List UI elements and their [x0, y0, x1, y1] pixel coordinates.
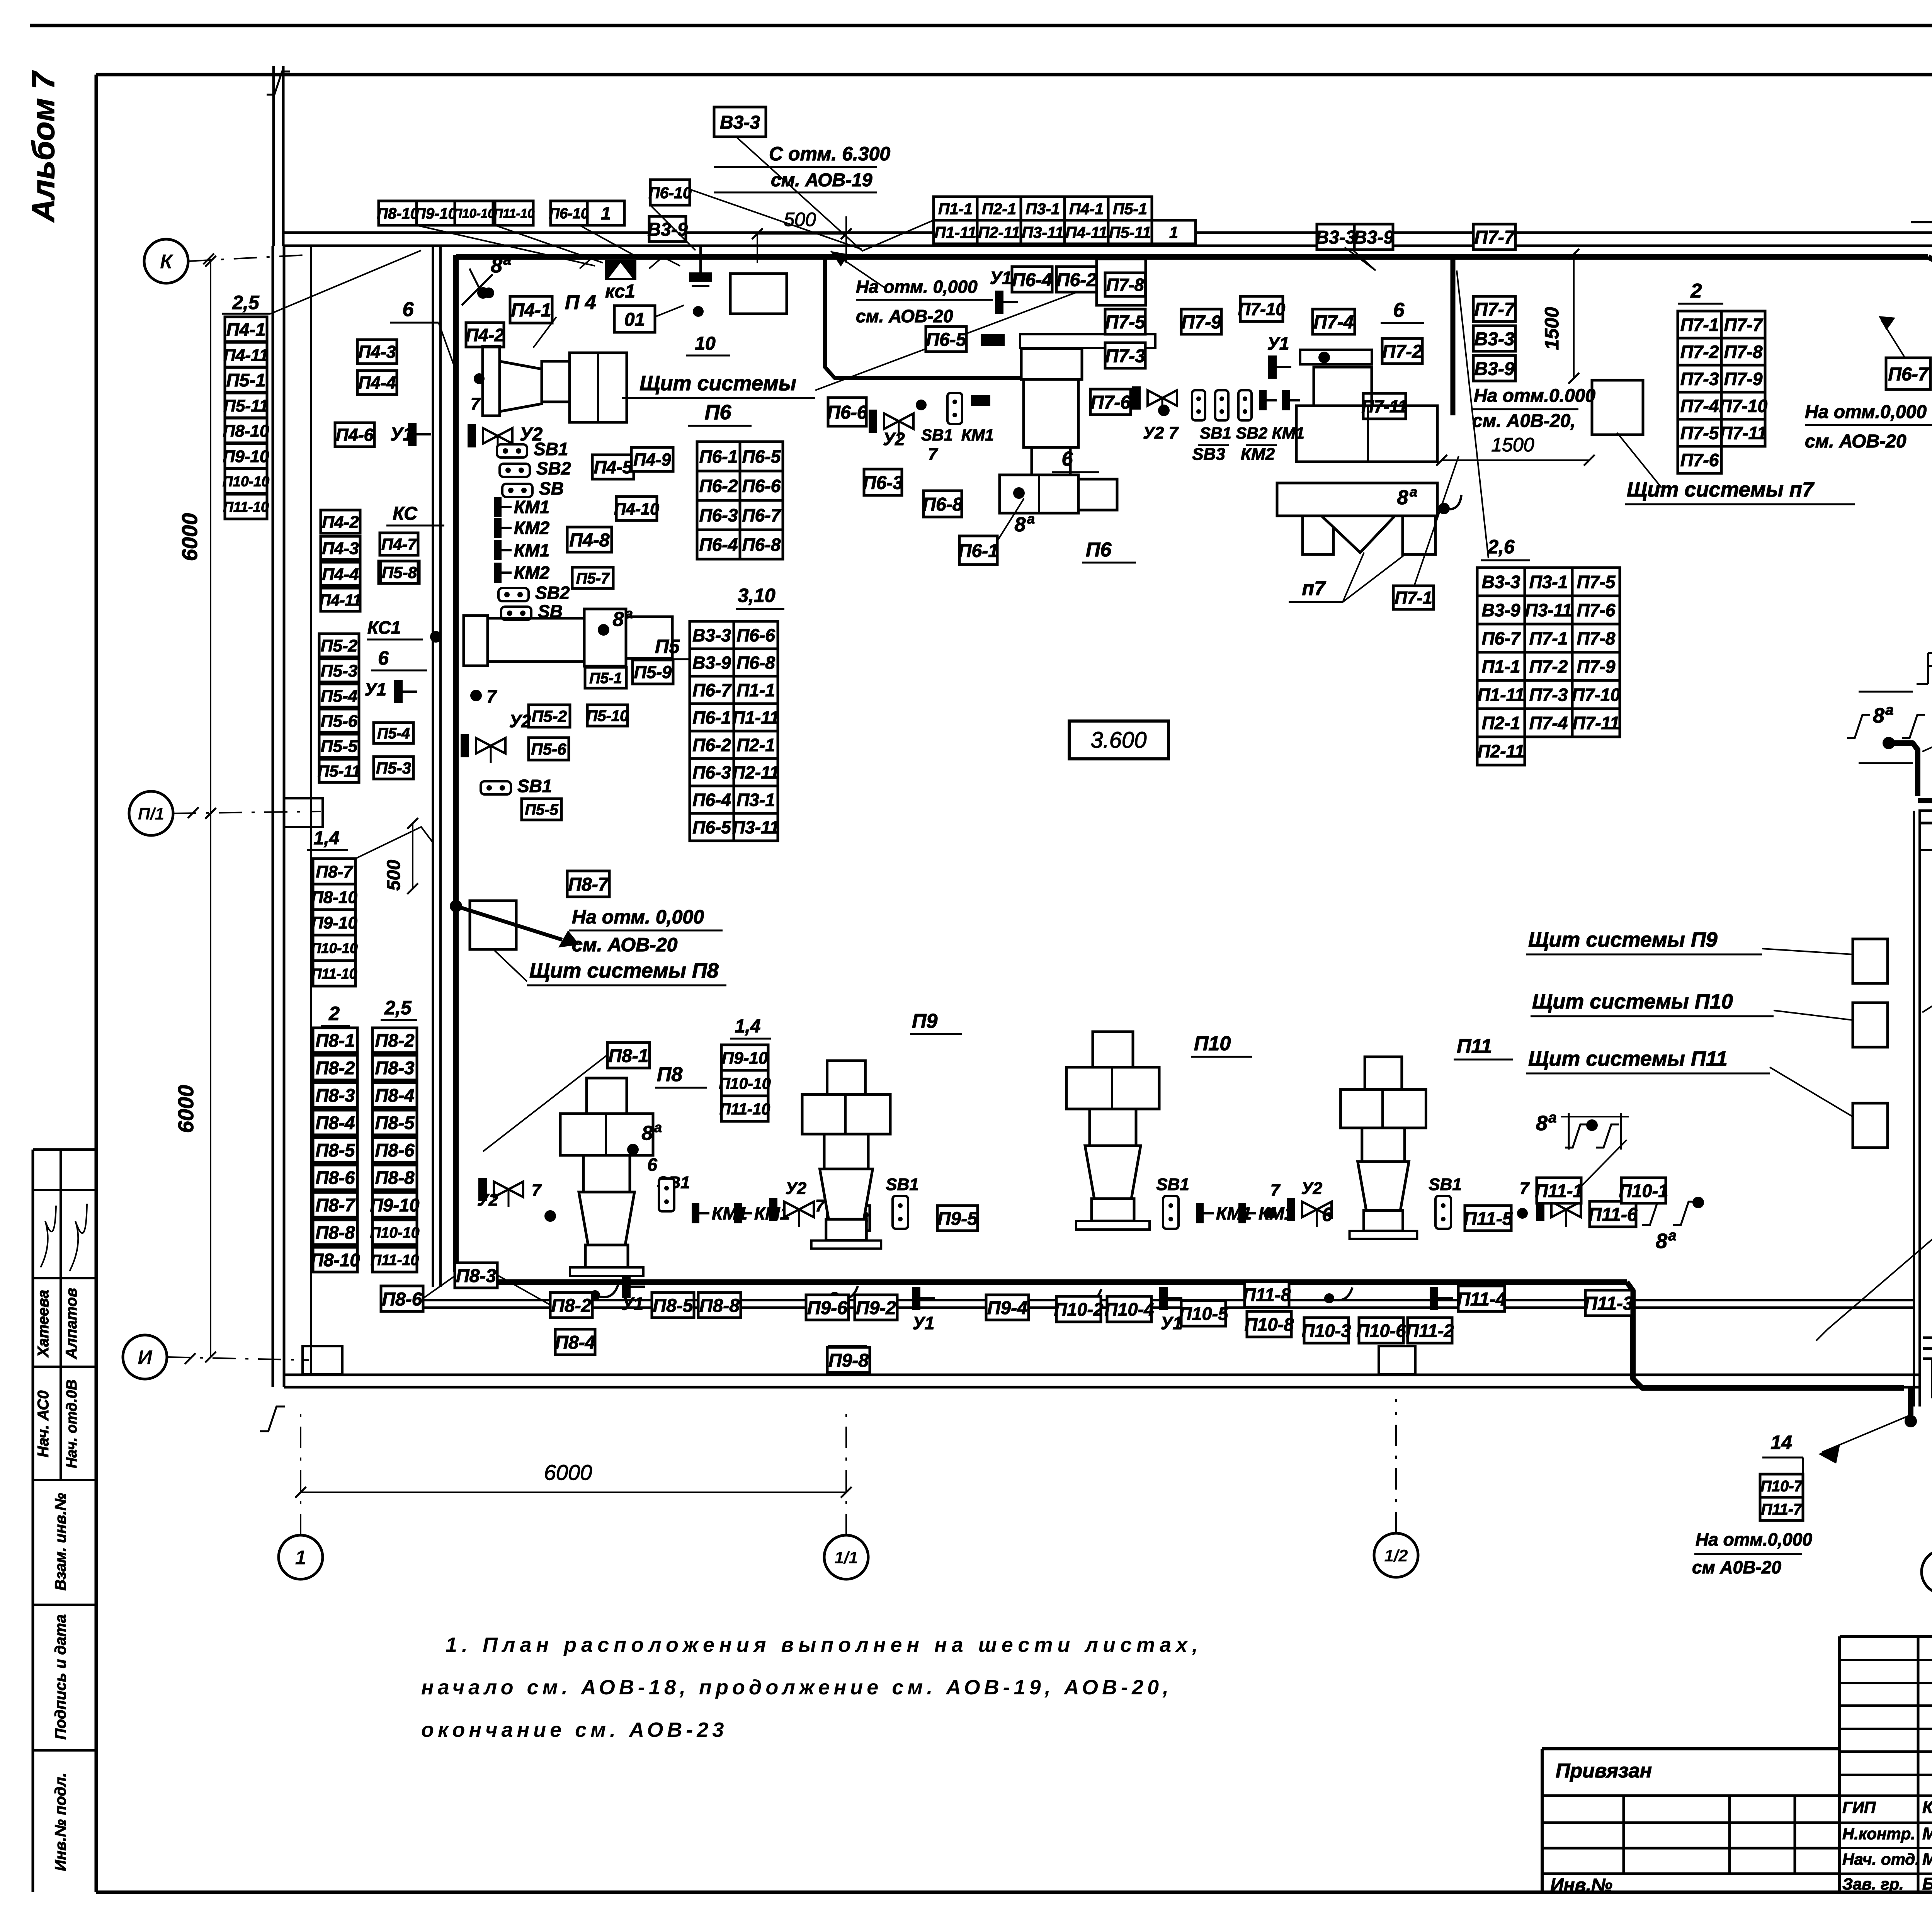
svg-text:П10-10: П10-10	[370, 1225, 420, 1241]
label box П10-10	[223, 469, 270, 493]
dim 500 line	[757, 233, 846, 235]
svg-text:П5-5: П5-5	[525, 801, 558, 818]
label box П8-10	[377, 201, 419, 225]
unit П11 assembly	[1341, 1057, 1426, 1239]
unit П4 horizontal assembly	[483, 346, 500, 416]
label box П10-6	[1357, 1318, 1406, 1343]
svg-text:П4-4: П4-4	[322, 565, 359, 584]
svg-text:И: И	[138, 1347, 153, 1369]
label box П7-6	[1090, 389, 1131, 415]
svg-text:П10-5: П10-5	[1179, 1303, 1229, 1324]
contactor КМ2	[494, 518, 550, 538]
column stub on И wall axis 1	[303, 1346, 342, 1374]
svg-text:П4-5: П4-5	[594, 457, 633, 477]
leader duct to 2,6 table	[1457, 270, 1488, 558]
svg-text:SВ3: SВ3	[1192, 445, 1225, 464]
unit П7 plinth	[1277, 483, 1437, 516]
sheet outer top edge	[30, 24, 1932, 27]
valve У2	[478, 1178, 523, 1207]
svg-text:П10-8: П10-8	[1245, 1314, 1294, 1335]
svg-text:П5-6: П5-6	[531, 740, 567, 758]
svg-text:П10-10: П10-10	[311, 940, 358, 956]
label box П6-10	[648, 180, 692, 205]
svg-text:П1-11: П1-11	[934, 223, 976, 241]
building left wall	[272, 246, 274, 1387]
drawing frame top	[96, 73, 1932, 77]
label box П7-1	[1393, 586, 1434, 609]
svg-text:Щит системы П11: Щит системы П11	[1528, 1047, 1728, 1070]
svg-text:П8-3: П8-3	[456, 1266, 496, 1286]
svg-text:Привязан: Привязан	[1556, 1760, 1652, 1782]
label box П8-2	[550, 1293, 592, 1318]
П9 duct tap	[830, 1292, 840, 1302]
svg-text:КС1: КС1	[367, 617, 401, 638]
svg-text:П8-10: П8-10	[311, 888, 357, 907]
svg-text:2: 2	[1690, 280, 1702, 302]
svg-text:SВ1: SВ1	[534, 439, 568, 459]
contactor КМ1	[1238, 1203, 1294, 1223]
actuator У1	[1268, 355, 1291, 379]
leader П1 row to duct	[862, 220, 934, 251]
svg-text:П8-8: П8-8	[699, 1296, 740, 1316]
axis И dash line	[167, 1357, 309, 1360]
svg-text:П4-3: П4-3	[322, 539, 359, 558]
svg-text:п7: п7	[1302, 577, 1326, 600]
table 3,10 group	[690, 621, 779, 841]
svg-text:П7-10: П7-10	[1719, 396, 1768, 416]
label box П5-7	[572, 567, 613, 588]
switch SВ1	[481, 776, 552, 796]
svg-text:В3-3: В3-3	[1474, 329, 1514, 349]
column stub on П/1 wall	[284, 798, 323, 827]
svg-text:В3-3: В3-3	[720, 112, 760, 133]
label box П8-3	[313, 1083, 357, 1107]
label box П6-6	[827, 398, 867, 426]
svg-text:П6-5: П6-5	[926, 330, 967, 350]
label box П8-10	[311, 1247, 360, 1272]
svg-text:П4-6: П4-6	[336, 425, 374, 445]
leader to П6 panel	[815, 286, 1094, 390]
svg-text:см. АОВ-19: см. АОВ-19	[771, 170, 872, 190]
svg-text:П5-2: П5-2	[532, 707, 567, 725]
label box П10-8	[1245, 1311, 1294, 1337]
svg-text:см. А0В-20,: см. А0В-20,	[1472, 411, 1576, 431]
panel Щит П6	[1097, 259, 1146, 305]
contactor КМ1	[494, 497, 549, 517]
panel Щит П8	[470, 901, 516, 949]
svg-text:см. АОВ-20: см. АОВ-20	[1805, 431, 1906, 452]
svg-text:П10-10: П10-10	[719, 1075, 771, 1092]
П8 branch duct	[456, 906, 562, 940]
svg-text:Малахов: Малахов	[1922, 1850, 1932, 1869]
stamp signatures	[41, 1206, 56, 1267]
svg-text:У1: У1	[364, 679, 386, 699]
svg-text:П1-11: П1-11	[1478, 685, 1525, 705]
svg-text:П7-2: П7-2	[1382, 342, 1422, 362]
svg-text:начало см. АОВ-18, продолже: начало см. АОВ-18, продолжение см. АОВ-1…	[421, 1676, 1172, 1699]
svg-text:П3-11: П3-11	[732, 817, 779, 837]
label box П4-1	[225, 317, 267, 342]
svg-text:см А0В-20: см А0В-20	[1692, 1557, 1781, 1577]
svg-text:1500: 1500	[1491, 434, 1534, 456]
svg-text:П7-6: П7-6	[1680, 450, 1719, 470]
svg-text:см. АОВ-20: см. АОВ-20	[572, 934, 678, 956]
break on left wall	[260, 1406, 285, 1431]
svg-text:П7-6: П7-6	[1577, 600, 1616, 620]
svg-text:П8-3: П8-3	[375, 1058, 415, 1078]
label box П5-8	[379, 561, 419, 583]
svg-text:П7-1: П7-1	[1680, 315, 1719, 335]
svg-text:П3-1: П3-1	[736, 790, 775, 810]
lower-right section top wall	[1918, 810, 1932, 812]
svg-text:П7-4: П7-4	[1529, 713, 1568, 733]
svg-text:П3-11: П3-11	[1022, 223, 1064, 241]
label box П8-6	[372, 1138, 417, 1162]
svg-text:П5-2: П5-2	[321, 636, 358, 655]
svg-text:П6-2: П6-2	[699, 476, 738, 496]
svg-text:У2 7: У2 7	[1143, 423, 1179, 442]
label box П10-10	[453, 201, 495, 225]
svg-text:П6-7: П6-7	[692, 680, 732, 700]
svg-text:У2: У2	[883, 429, 905, 449]
contactor КМ1	[494, 540, 549, 560]
label box П4-3	[357, 340, 397, 364]
П8 duct tap	[590, 1290, 600, 1300]
svg-text:П10-1: П10-1	[1619, 1180, 1668, 1201]
switch SВ	[501, 601, 563, 621]
svg-text:П7-4: П7-4	[1680, 396, 1719, 416]
svg-text:SВ2: SВ2	[535, 583, 570, 603]
label box П8-8	[698, 1293, 741, 1318]
column stub on И wall axis 1/2	[1379, 1346, 1415, 1374]
interior wall above И	[417, 1299, 1915, 1301]
wall break symbol	[267, 71, 290, 95]
svg-text:В3-9: В3-9	[1354, 227, 1394, 248]
svg-text:КС: КС	[393, 503, 418, 524]
valve У2	[461, 734, 505, 763]
actuator У1	[995, 291, 1018, 314]
label box П9-4	[986, 1295, 1029, 1320]
svg-text:П8-10: П8-10	[311, 1250, 360, 1270]
svg-text:В3-9: В3-9	[1474, 359, 1514, 379]
main supply duct along top wall	[456, 254, 1928, 260]
svg-text:У2: У2	[509, 711, 531, 731]
drawing frame bottom	[96, 1891, 1932, 1894]
svg-text:П6-7: П6-7	[742, 505, 782, 526]
table П8-7 list	[311, 859, 358, 986]
svg-text:П1-11: П1-11	[732, 707, 779, 728]
switch SВ2	[498, 583, 570, 603]
svg-text:П5: П5	[655, 636, 680, 657]
svg-text:Альбом 7: Альбом 7	[26, 70, 61, 223]
vertical corridor duct and bottom duct	[456, 255, 1627, 1282]
axis 1 circle	[279, 1535, 323, 1579]
label box П8-7	[313, 1192, 357, 1217]
leader П8-10 row	[417, 225, 595, 266]
label box П5-3	[319, 659, 359, 682]
svg-text:П8-5: П8-5	[653, 1296, 694, 1316]
label box П5-6	[319, 709, 359, 732]
svg-text:а: а	[503, 252, 511, 268]
svg-text:а: а	[1668, 1228, 1676, 1244]
duct along right section top wall	[1918, 801, 1932, 844]
svg-text:SВ1: SВ1	[1429, 1175, 1462, 1194]
svg-text:П8-2: П8-2	[551, 1296, 592, 1316]
left stamp table	[32, 1150, 34, 1892]
svg-text:П9-5: П9-5	[937, 1209, 978, 1229]
label box П11-10	[371, 1247, 419, 1272]
label box П4-9	[631, 447, 673, 471]
svg-text:Щит системы п7: Щит системы п7	[1627, 478, 1815, 501]
heater КС1 symbol	[605, 260, 636, 280]
svg-text:П6: П6	[705, 401, 732, 424]
label box П4-8	[567, 527, 612, 552]
axis К dash line	[188, 255, 305, 261]
switch SВ1	[497, 439, 568, 459]
svg-text:П3-11: П3-11	[1525, 600, 1572, 620]
svg-text:П6-8: П6-8	[923, 494, 963, 515]
КС1 panel square	[730, 274, 787, 314]
leader П6-10 b	[690, 189, 862, 249]
label box П10-3	[1302, 1318, 1351, 1343]
svg-text:Алпатов: Алпатов	[63, 1288, 80, 1359]
svg-text:Щит системы П10: Щит системы П10	[1532, 990, 1733, 1013]
axis 1 dash line	[300, 1406, 301, 1535]
svg-text:На отм.0,000: На отм.0,000	[1805, 402, 1927, 422]
svg-text:П10-3: П10-3	[1302, 1320, 1351, 1341]
axis П/1 circle	[129, 791, 173, 835]
svg-text:П11-10: П11-10	[311, 966, 357, 981]
label box П5-4	[319, 684, 359, 707]
svg-text:6: 6	[647, 1155, 657, 1175]
label box П5-9	[633, 660, 673, 684]
label box П8-10	[223, 418, 269, 443]
switch post	[1215, 390, 1228, 420]
svg-text:Блудова: Блудова	[1922, 1874, 1932, 1893]
svg-text:1. План расположения выполнен: 1. План расположения выполнен на шести л…	[446, 1633, 1202, 1656]
label box П11-5	[1463, 1206, 1513, 1231]
svg-text:П6-10: П6-10	[648, 184, 692, 202]
label box П5-11	[318, 759, 361, 782]
svg-text:П8-5: П8-5	[375, 1112, 415, 1133]
slot diffuser П6	[1020, 334, 1155, 348]
svg-text:На отм.0,000: На отм.0,000	[1696, 1529, 1812, 1549]
label box П7-9	[1181, 309, 1221, 334]
svg-text:П8-4: П8-4	[375, 1085, 415, 1105]
svg-text:КМ2: КМ2	[514, 563, 550, 583]
svg-text:П8-4: П8-4	[316, 1112, 355, 1133]
svg-text:П4-3: П4-3	[358, 342, 396, 362]
label box П6-2	[1056, 267, 1097, 292]
leader from 2,5 list to wall	[270, 250, 421, 314]
svg-text:У1: У1	[622, 1294, 644, 1314]
svg-text:П6-5: П6-5	[742, 447, 781, 467]
contactor	[1282, 390, 1300, 410]
unit П10 assembly	[1066, 1032, 1159, 1230]
svg-text:В3-9: В3-9	[692, 653, 731, 673]
svg-text:П5-7: П5-7	[576, 570, 610, 587]
svg-text:П8-10: П8-10	[377, 205, 419, 222]
svg-text:П3-1: П3-1	[1026, 200, 1060, 218]
label box П6-4	[1012, 267, 1052, 292]
svg-text:Нач. отд.0В: Нач. отд.0В	[64, 1379, 80, 1468]
svg-text:1500: 1500	[1541, 307, 1563, 350]
svg-text:8: 8	[1015, 514, 1026, 536]
svg-text:П4-1: П4-1	[511, 300, 551, 321]
label box П6-1	[958, 536, 998, 565]
svg-text:П6-3: П6-3	[699, 505, 738, 526]
svg-text:7: 7	[471, 395, 481, 413]
svg-text:П6-4: П6-4	[1012, 270, 1052, 290]
svg-text:П6-4: П6-4	[692, 790, 731, 810]
label box П6-3	[863, 469, 903, 495]
leader 1 box	[580, 225, 634, 255]
actuator У1	[912, 1287, 935, 1310]
svg-text:У1: У1	[1267, 333, 1289, 354]
svg-text:6000: 6000	[544, 1460, 592, 1485]
switch post	[1192, 390, 1205, 420]
svg-text:У1: У1	[913, 1313, 935, 1333]
svg-text:П7-5: П7-5	[1577, 572, 1616, 592]
axis 1/2 dash line	[1395, 1399, 1397, 1533]
label box П4-2	[466, 323, 504, 347]
label box П5-11	[223, 393, 268, 418]
svg-text:П6-6: П6-6	[736, 625, 775, 645]
switch SВ	[502, 478, 564, 498]
svg-text:П7-9: П7-9	[1724, 369, 1763, 389]
svg-text:П1-1: П1-1	[938, 200, 973, 218]
unit П5 assembly	[464, 616, 488, 666]
label box П5-5	[319, 734, 359, 757]
svg-text:П4-11: П4-11	[223, 346, 268, 365]
svg-text:П11-4: П11-4	[1457, 1289, 1506, 1310]
svg-text:П5-1: П5-1	[226, 370, 266, 390]
svg-text:П6-2: П6-2	[692, 735, 731, 755]
roof truss line По ферме	[1911, 221, 1932, 223]
П10 duct tap	[1073, 1295, 1083, 1305]
svg-text:П8-4: П8-4	[555, 1332, 595, 1353]
label box П8-6	[313, 1165, 357, 1190]
label box П9-8	[827, 1347, 870, 1372]
svg-text:1/1: 1/1	[834, 1548, 858, 1567]
svg-text:П5-3: П5-3	[376, 759, 411, 777]
svg-text:П11-3: П11-3	[1584, 1293, 1633, 1314]
svg-text:Хатеева: Хатеева	[35, 1290, 52, 1358]
unit П7 funnel	[1321, 516, 1395, 553]
label box П4-4	[357, 371, 397, 395]
svg-text:1: 1	[1169, 223, 1178, 241]
switch post	[1238, 390, 1252, 420]
left vertical dimension line 6000+6000	[210, 261, 211, 1357]
panel Щит П7	[1592, 380, 1643, 435]
svg-text:ГИП: ГИП	[1842, 1798, 1876, 1816]
svg-text:В3-9: В3-9	[1482, 600, 1520, 620]
svg-text:П7-8: П7-8	[1724, 342, 1763, 362]
svg-text:П8-6: П8-6	[375, 1140, 415, 1160]
svg-text:П2-1: П2-1	[1482, 713, 1520, 733]
label box П5-6	[529, 738, 569, 760]
svg-text:П8-5: П8-5	[316, 1140, 355, 1160]
svg-text:7: 7	[928, 445, 939, 464]
dim line 1500 horizontal	[1441, 459, 1590, 461]
svg-text:1: 1	[295, 1547, 306, 1569]
svg-text:П8-2: П8-2	[316, 1058, 355, 1078]
unit П9 assembly	[802, 1061, 890, 1248]
svg-text:П6-1: П6-1	[699, 447, 738, 467]
svg-text:У2: У2	[1301, 1179, 1323, 1198]
actuator У1	[622, 1275, 645, 1298]
slot diffuser bar П6-5	[981, 334, 1005, 346]
label box П4-11	[223, 342, 268, 367]
svg-text:7: 7	[1520, 1179, 1530, 1198]
svg-text:П11-10: П11-10	[719, 1100, 770, 1118]
svg-text:7: 7	[532, 1181, 542, 1200]
П6 riser duct	[825, 256, 1021, 378]
svg-text:П6-10: П6-10	[549, 206, 589, 222]
svg-text:П7-2: П7-2	[1680, 342, 1719, 362]
svg-text:14: 14	[1770, 1432, 1792, 1453]
svg-text:П11-10: П11-10	[223, 499, 269, 515]
dim line 1500 vertical	[1573, 254, 1575, 378]
svg-text:П8-3: П8-3	[316, 1085, 355, 1105]
svg-text:П9: П9	[912, 1010, 937, 1032]
svg-text:см. АОВ-20: см. АОВ-20	[856, 306, 953, 326]
svg-text:П4-9: П4-9	[633, 450, 671, 469]
axis 1/1 dash line	[845, 1406, 847, 1535]
leader В3-3 to duct	[736, 137, 862, 250]
svg-text:П6-1: П6-1	[958, 541, 998, 561]
svg-text:8: 8	[1656, 1230, 1667, 1253]
svg-text:6: 6	[1062, 448, 1073, 470]
label box П11-1	[1535, 1178, 1583, 1203]
label box П8-4	[372, 1083, 417, 1107]
contactor КМ2	[494, 563, 550, 583]
svg-text:П11-6: П11-6	[1588, 1204, 1637, 1225]
label box П10-10	[370, 1220, 420, 1245]
svg-text:Н.контр.: Н.контр.	[1842, 1825, 1915, 1843]
panel Щит П11	[1853, 1103, 1888, 1148]
svg-text:В3-3: В3-3	[1315, 227, 1355, 248]
svg-text:В3-3: В3-3	[692, 625, 731, 645]
label box П8-3	[372, 1055, 417, 1080]
svg-text:2,5: 2,5	[232, 292, 260, 313]
П7 riser duct	[1451, 257, 1456, 415]
svg-text:6000: 6000	[177, 513, 202, 561]
svg-text:Нач. АС0: Нач. АС0	[35, 1390, 52, 1457]
label box П4-7	[380, 533, 418, 555]
svg-text:П10-2: П10-2	[1054, 1299, 1104, 1320]
table П1-11..П5-11	[934, 220, 1196, 244]
svg-text:П9-4: П9-4	[987, 1298, 1027, 1318]
contactor КМ2	[494, 563, 550, 583]
label box П5-3	[374, 757, 413, 779]
svg-text:П7-9: П7-9	[1181, 312, 1221, 333]
middle hall right wall	[1913, 811, 1915, 1406]
svg-text:П11-5: П11-5	[1463, 1209, 1513, 1229]
svg-text:П5-1: П5-1	[589, 670, 622, 687]
left wall stub above building	[272, 66, 275, 246]
break bracket 8а П9 riser	[1859, 691, 1913, 693]
svg-text:КМ1: КМ1	[961, 426, 994, 444]
label box П5-10	[587, 705, 629, 726]
corridor wall double	[432, 247, 434, 1287]
svg-text:У1: У1	[1161, 1313, 1183, 1333]
svg-text:П4-2: П4-2	[322, 513, 359, 532]
svg-text:П6-1: П6-1	[692, 707, 731, 728]
label box П9-6	[806, 1295, 849, 1320]
svg-text:П11-10: П11-10	[494, 206, 535, 220]
table П6-1..П6-8	[697, 442, 783, 559]
